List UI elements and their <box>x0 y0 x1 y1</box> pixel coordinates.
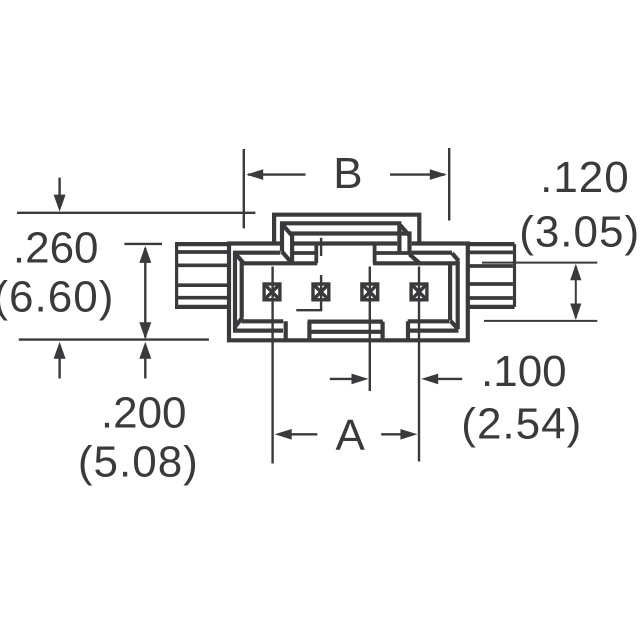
pin 1 center line / extension line <box>271 267 273 464</box>
svg-text:(2.54): (2.54) <box>461 399 582 448</box>
arrowhead .100 right <box>421 374 438 385</box>
tab slab corner diagonal top-left <box>283 225 291 235</box>
right mounting wing <box>468 244 515 307</box>
pin 4 square <box>411 284 427 300</box>
pin 3 center line / extension line <box>369 267 371 392</box>
dimension .260 vertical arrow shaft <box>144 248 146 338</box>
tab left leg <box>294 244 318 264</box>
dimension .200 bottom reference line <box>19 338 209 340</box>
tab slab front face B <box>290 234 411 263</box>
svg-text:.200: .200 <box>101 389 187 438</box>
tab slab corner diagonal top-right <box>400 225 409 235</box>
cavity frame chamfer bottom-right <box>451 321 459 330</box>
arrowhead .100 left <box>352 374 369 385</box>
tab outer outline <box>274 215 419 244</box>
arrowhead .200 up left <box>54 342 66 359</box>
cavity inner rectangle <box>240 263 459 322</box>
body top edge segments <box>227 241 470 245</box>
arrowhead .260 down <box>54 195 66 212</box>
pin 2 center line with hook <box>296 238 321 311</box>
svg-text:.260: .260 <box>13 224 99 273</box>
dimension A arrow lines <box>289 433 403 435</box>
dimension .120 leader lines <box>482 263 597 321</box>
left mounting wing <box>175 244 229 307</box>
arrowhead A left <box>275 429 292 440</box>
connector body outline <box>229 244 468 341</box>
pin 2 square <box>313 284 329 300</box>
bottom wall middle segment <box>308 322 383 341</box>
dimension .260 vertical tick <box>124 243 162 245</box>
arrowhead B right <box>430 169 447 180</box>
dimension .100 arrow lines <box>330 378 462 380</box>
svg-text:.120: .120 <box>540 153 630 202</box>
dimension B extension lines <box>244 148 449 228</box>
arrowhead .260 vertical up <box>139 246 151 263</box>
pin 4 center line / extension line <box>418 267 420 462</box>
arrowhead A right <box>400 429 417 440</box>
tab slab corner diagonal bottom-right <box>410 254 421 264</box>
pin 3 square <box>362 284 378 300</box>
bottom wall notch edges <box>286 321 408 340</box>
dimension B arrow lines <box>248 173 445 175</box>
dimension .260 top reference line <box>17 212 255 214</box>
cavity frame chamfer top-right <box>452 253 459 261</box>
svg-text:B: B <box>333 149 362 198</box>
arrowhead .200 up right <box>139 342 151 359</box>
arrowhead .120 up <box>570 264 581 281</box>
arrowhead B left <box>246 169 263 180</box>
pin 1 square <box>264 284 427 300</box>
arrowhead .260 vertical down <box>139 322 151 339</box>
cavity frame miter bottom-left <box>235 318 243 327</box>
svg-text:.100: .100 <box>481 347 567 396</box>
svg-text:(3.05): (3.05) <box>519 207 640 256</box>
dimension .260 down arrow tail <box>58 178 60 196</box>
dimension .200 up arrow tails <box>60 357 146 379</box>
arrowhead .120 down <box>570 304 581 321</box>
tab slab back face A <box>280 223 401 253</box>
cavity frame miter top-left <box>234 252 244 264</box>
svg-text:(5.08): (5.08) <box>78 437 199 486</box>
svg-text:(6.60): (6.60) <box>0 272 114 321</box>
tab slab corner diagonal bottom-left <box>282 252 291 262</box>
dimension .120 arrow shaft <box>575 266 577 318</box>
svg-text:A: A <box>336 411 366 460</box>
tab right leg <box>375 244 410 264</box>
cavity wall outer frame <box>233 253 459 331</box>
